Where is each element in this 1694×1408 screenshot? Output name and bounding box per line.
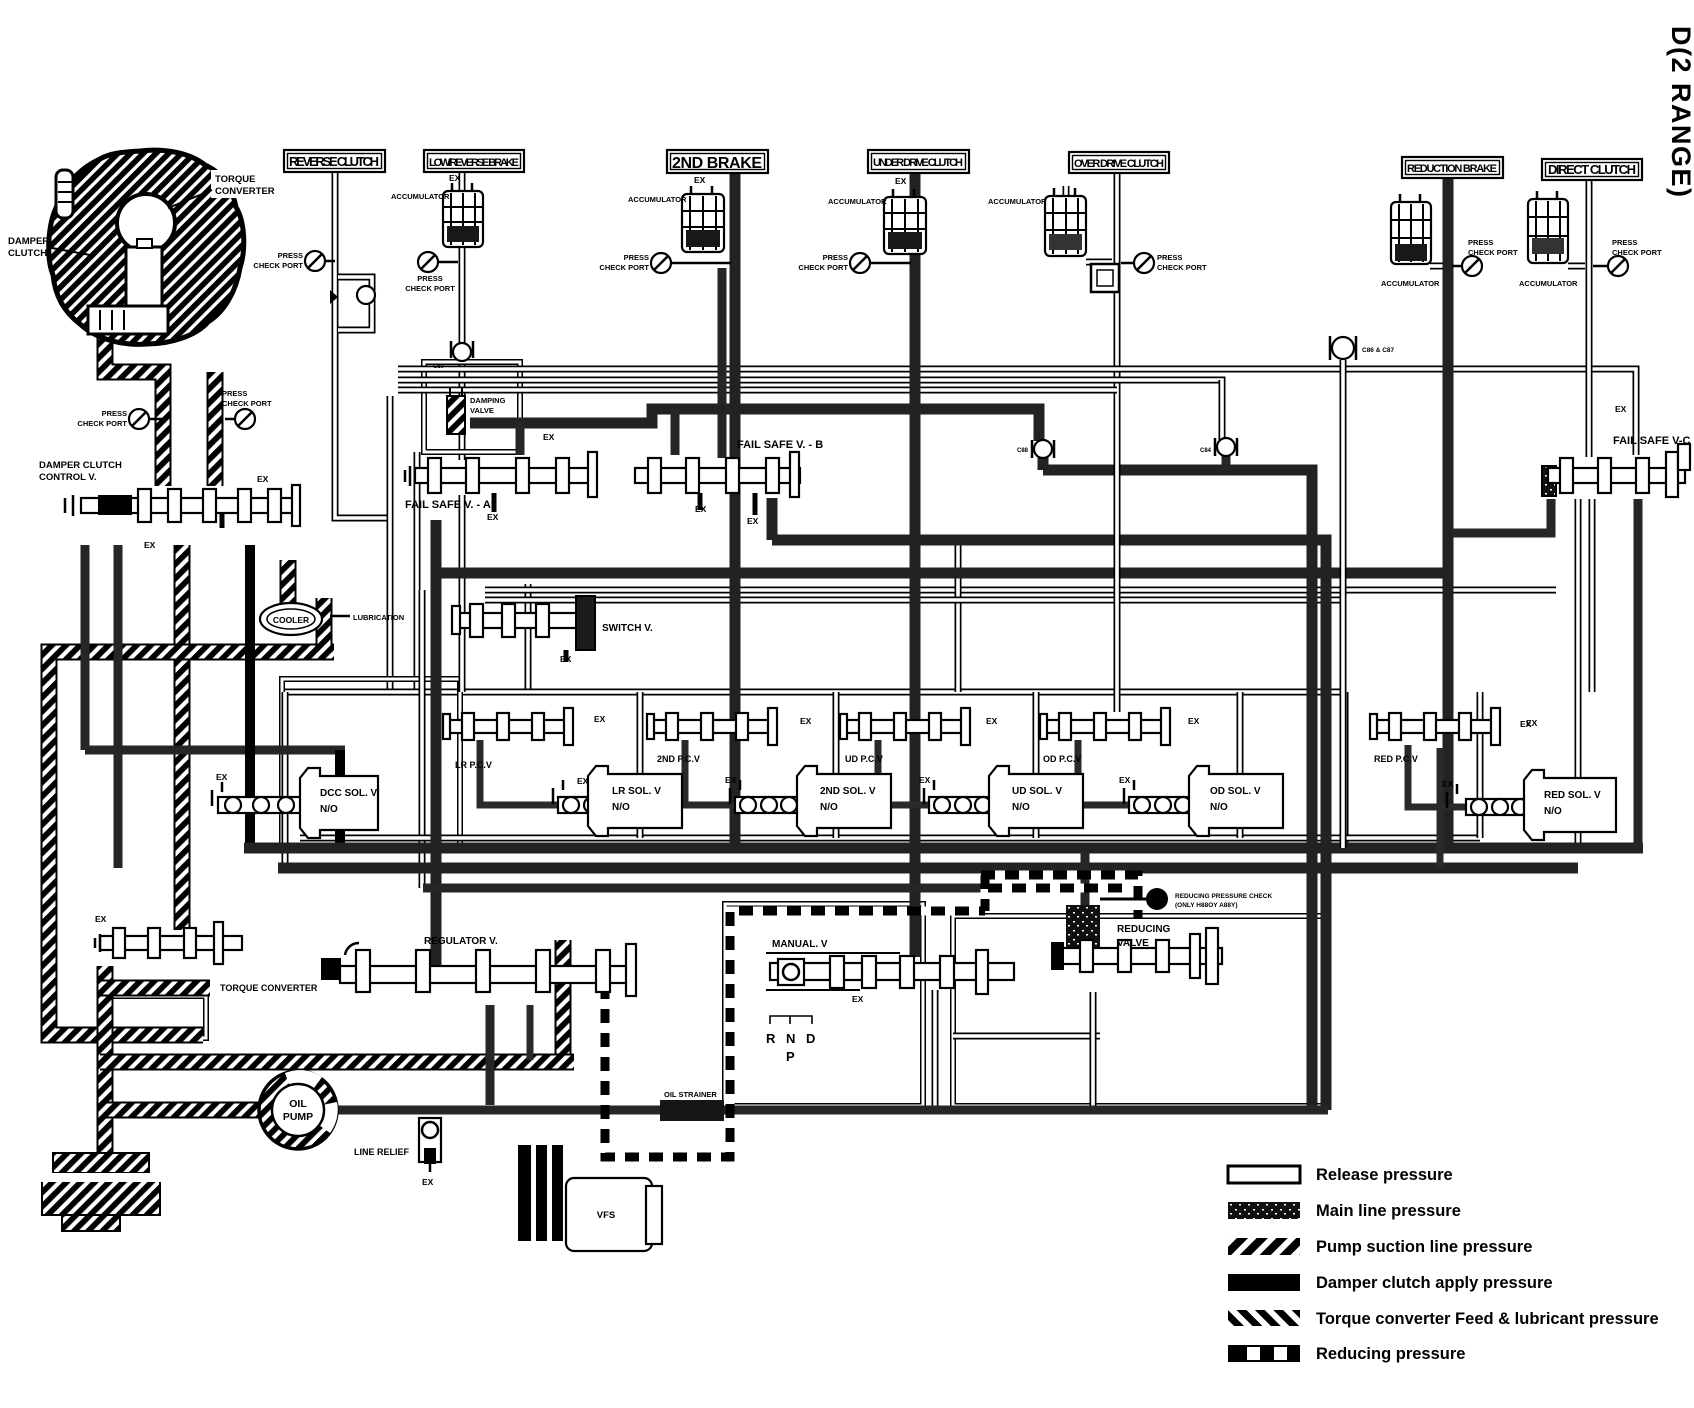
label MANUAL V <box>772 939 828 950</box>
label C84 <box>1200 448 1212 454</box>
svg-text:REGULATOR V.: REGULATOR V. <box>424 936 498 947</box>
svg-text:REVERSE CLUTCH: REVERSE CLUTCH <box>289 154 379 169</box>
box DIRECT CLUTCH <box>1542 159 1642 180</box>
label C86 C87 <box>1362 347 1395 354</box>
svg-text:PRESS: PRESS <box>278 251 303 260</box>
solenoid DCC <box>212 768 378 838</box>
svg-text:CONVERTER: CONVERTER <box>215 186 275 197</box>
WIRES-MAIN <box>85 172 1643 1110</box>
check ball C88 <box>1032 440 1054 458</box>
label FAIL SAFE V-A <box>405 499 491 511</box>
wire LR pcv-sol link <box>480 740 560 805</box>
wire reducing pressure line 1 <box>605 911 985 1157</box>
svg-text:REDUCTION BRAKE: REDUCTION BRAKE <box>1407 163 1497 175</box>
wire failsafe C link <box>1452 499 1551 533</box>
wire switch valve drop <box>525 584 532 695</box>
solenoid 2ND <box>730 766 891 836</box>
legend pump suction swatch <box>1228 1238 1300 1255</box>
svg-text:EX: EX <box>543 432 555 442</box>
wire DIR accumulator link <box>1568 263 1585 270</box>
svg-text:PRESS: PRESS <box>823 253 848 262</box>
accumulator 2ND <box>682 186 724 252</box>
svg-text:FAIL SAFE V-C: FAIL SAFE V-C <box>1613 435 1690 447</box>
svg-text:EX: EX <box>257 474 269 484</box>
wire direct line overpass <box>1586 250 1593 457</box>
label press check dcc2 <box>222 389 272 408</box>
svg-text:Release pressure: Release pressure <box>1316 1166 1453 1184</box>
svg-text:2ND SOL. V: 2ND SOL. V <box>820 786 876 797</box>
svg-text:SWITCH V.: SWITCH V. <box>602 623 653 634</box>
wire pump output line <box>337 1106 1328 1115</box>
svg-text:DAMPER CLUTCH: DAMPER CLUTCH <box>39 460 122 471</box>
label FAIL SAFE V-B <box>737 439 823 451</box>
wire 2ND pcv-sol link <box>685 740 741 805</box>
label TORQUE CONVERTER <box>168 170 283 208</box>
wire mid box left border <box>419 590 426 888</box>
svg-text:(ONLY H88OY A88Y): (ONLY H88OY A88Y) <box>1175 902 1238 909</box>
wire bottom bus A <box>244 843 1643 854</box>
check ball C59 <box>451 341 473 361</box>
label LR PCV <box>455 760 492 770</box>
wire second mid thin bus <box>485 597 1345 604</box>
wire pcv partition 5 <box>1237 692 1244 838</box>
press check port direct <box>1593 256 1628 276</box>
svg-text:C88: C88 <box>1017 448 1029 454</box>
wire low-reverse release line <box>459 171 466 460</box>
svg-text:EX: EX <box>422 1177 434 1187</box>
wire damper clutch apply line <box>245 545 255 848</box>
svg-text:CHECK PORT: CHECK PORT <box>1468 248 1518 257</box>
wire regulator drain 2 <box>527 1005 534 1060</box>
label RNDP <box>766 1016 815 1064</box>
svg-text:EX: EX <box>986 716 998 726</box>
wire lower hatch pipe a <box>100 980 210 997</box>
press check port dcc left <box>129 409 162 429</box>
wire od drop to pcv <box>1114 692 1121 712</box>
damping valve <box>447 388 465 434</box>
svg-text:FAIL SAFE V. - A: FAIL SAFE V. - A <box>405 499 491 511</box>
oil pan strainer blocks <box>40 1153 162 1231</box>
svg-text:CHECK PORT: CHECK PORT <box>77 419 127 428</box>
label DAMPING VALVE <box>470 396 506 415</box>
label press check dir <box>1612 238 1662 257</box>
wire C84 drop overpass <box>1219 380 1226 438</box>
wire damping valve frame <box>424 362 520 452</box>
wire failsafe A drop <box>459 495 466 692</box>
box 2ND BRAKE <box>667 150 768 173</box>
svg-text:REDUCING PRESSURE CHECK: REDUCING PRESSURE CHECK <box>1175 893 1272 900</box>
svg-text:N/O: N/O <box>612 802 630 813</box>
svg-text:CHECK PORT: CHECK PORT <box>253 261 303 270</box>
svg-text:FAIL SAFE V. - B: FAIL SAFE V. - B <box>737 439 823 451</box>
svg-text:EX: EX <box>694 175 706 185</box>
wire underdrive apply line <box>910 172 921 957</box>
lubrication leader <box>330 615 350 618</box>
wire reduction brake line <box>1443 177 1454 848</box>
accumulator RED <box>1391 194 1431 264</box>
svg-text:TORQUE CONVERTER: TORQUE CONVERTER <box>220 983 318 993</box>
wire mid thin bus <box>485 587 1556 594</box>
svg-text:EX: EX <box>1526 718 1538 728</box>
svg-text:C59: C59 <box>433 364 445 370</box>
wire top bus 1 <box>398 369 1636 455</box>
wire right verticals below failsafe C <box>1575 499 1582 850</box>
block reducing valve inlet <box>1066 905 1100 957</box>
svg-text:EX: EX <box>800 716 812 726</box>
label ACCUMULATOR OD <box>988 197 1047 206</box>
press check port dcc right <box>225 409 255 429</box>
wire torque converter right pipe <box>207 372 224 486</box>
wire reducing pressure link <box>981 875 990 911</box>
svg-text:2ND P.C.V: 2ND P.C.V <box>657 754 700 764</box>
wire tc valve drain pipe <box>555 940 572 1062</box>
valve fail safe A <box>405 452 597 497</box>
wire pcv partition 3 <box>833 692 840 838</box>
solenoid LR <box>553 766 682 836</box>
valve switch <box>452 596 595 650</box>
press check port od <box>1121 253 1154 273</box>
svg-text:EX: EX <box>487 512 499 522</box>
wire cooler return pipe <box>316 598 333 652</box>
svg-text:OIL STRAINER: OIL STRAINER <box>664 1090 717 1099</box>
svg-text:N/O: N/O <box>1210 802 1228 813</box>
svg-text:EX: EX <box>560 654 572 664</box>
wire failsafe B connector <box>671 409 680 455</box>
box REDUCTION BRAKE <box>1402 157 1503 178</box>
wire direct clutch release line <box>1586 179 1593 457</box>
label OD SOL <box>1210 786 1261 813</box>
svg-text:Reducing pressure: Reducing pressure <box>1316 1345 1465 1363</box>
svg-text:ACCUMULATOR: ACCUMULATOR <box>828 197 887 206</box>
label ACCUMULATOR 2ND <box>628 195 687 204</box>
accumulator DIR <box>1528 191 1568 263</box>
wire solenoid row top border <box>285 689 1345 696</box>
svg-text:Torque converter Feed & lubric: Torque converter Feed & lubricant pressu… <box>1316 1310 1659 1328</box>
legend texts <box>1316 1166 1659 1363</box>
wire torque converter valve box <box>105 996 206 1038</box>
svg-text:OIL: OIL <box>289 1098 307 1110</box>
wire damper apply to DCC solenoid <box>335 750 345 845</box>
svg-text:C86 & C87: C86 & C87 <box>1362 347 1395 354</box>
svg-text:VALVE: VALVE <box>470 406 494 415</box>
legend damper clutch swatch <box>1228 1274 1300 1291</box>
label reducing pressure check <box>1175 893 1272 909</box>
label DAMPER CLUTCH <box>8 236 90 259</box>
svg-text:EX: EX <box>1615 404 1627 414</box>
wire OD pcv-sol link <box>1078 740 1135 805</box>
valve manual <box>766 950 1014 994</box>
valve 2ND PCV <box>647 708 777 745</box>
svg-text:RED SOL. V: RED SOL. V <box>1544 790 1601 801</box>
wire OD accumulator link <box>1066 186 1112 262</box>
svg-text:OD SOL. V: OD SOL. V <box>1210 786 1261 797</box>
wire feed pipe down from DCC valve <box>174 545 191 930</box>
SOLENOID-ROW <box>212 708 1616 840</box>
wire pcv partition 4 <box>1033 692 1040 838</box>
valve RED PCV <box>1370 708 1500 745</box>
check ball C84 <box>1215 438 1237 456</box>
svg-text:LR P.C.V: LR P.C.V <box>455 760 492 770</box>
label press check lowrev <box>405 274 455 293</box>
svg-text:EX: EX <box>1442 779 1454 789</box>
svg-text:DAMPING: DAMPING <box>470 396 506 405</box>
oil pump <box>259 1070 338 1149</box>
wire left gray vertical 2 <box>114 545 123 868</box>
label TORQUE CONVERTER valve <box>220 983 318 993</box>
svg-text:PUMP: PUMP <box>283 1111 313 1123</box>
svg-text:ACCUMULATOR: ACCUMULATOR <box>628 195 687 204</box>
svg-text:D: D <box>806 1031 815 1046</box>
legend main line swatch <box>1228 1202 1300 1219</box>
svg-text:PRESS: PRESS <box>624 253 649 262</box>
label OIL STRAINER <box>664 1090 717 1099</box>
box LOW/REVERSE BRAKE <box>424 150 524 172</box>
wire left pair vertical <box>387 396 394 695</box>
svg-text:CHECK PORT: CHECK PORT <box>405 284 455 293</box>
svg-text:PRESS: PRESS <box>1612 238 1637 247</box>
wire bottom bus C <box>423 884 988 893</box>
svg-text:EX: EX <box>695 504 707 514</box>
label 2ND SOL <box>820 786 876 813</box>
wire cooler feed pipe <box>280 560 297 606</box>
svg-text:Damper clutch apply pressure: Damper clutch apply pressure <box>1316 1274 1553 1292</box>
press check port red <box>1452 256 1482 276</box>
svg-text:2ND BRAKE: 2ND BRAKE <box>672 155 762 172</box>
press check port 2nd <box>651 253 731 273</box>
svg-text:EX: EX <box>449 173 461 183</box>
wire 2nd brake apply line <box>730 172 741 848</box>
wire manual valve box <box>725 904 923 1106</box>
check ball C86-C87 <box>1330 336 1356 360</box>
wire failsafe A connector <box>516 423 525 455</box>
svg-text:PRESS: PRESS <box>222 389 247 398</box>
wire solenoid box left border <box>282 692 289 868</box>
label ACCUMULATOR RED <box>1381 279 1440 288</box>
svg-text:PRESS: PRESS <box>417 274 442 283</box>
legend release swatch <box>1228 1166 1300 1183</box>
svg-text:Pump suction line pressure: Pump suction line pressure <box>1316 1238 1532 1256</box>
svg-text:DIRECT CLUTCH: DIRECT CLUTCH <box>1548 162 1636 177</box>
label REGULATOR V <box>424 936 498 947</box>
svg-text:EX: EX <box>594 714 606 724</box>
wire bus D to right vertical <box>1043 456 1312 1110</box>
svg-text:EX: EX <box>725 775 737 785</box>
label press check 2nd <box>599 253 649 272</box>
valve fail safe C <box>1542 444 1690 497</box>
svg-text:P: P <box>786 1049 795 1064</box>
svg-text:DAMPER: DAMPER <box>8 236 49 247</box>
wire upper dark bus D <box>470 409 1039 441</box>
wire reducing bus segment <box>988 884 1125 893</box>
oil strainer block <box>660 1100 724 1121</box>
svg-text:PRESS: PRESS <box>1157 253 1182 262</box>
wire reverse clutch release line <box>335 171 390 695</box>
wire regulator drain <box>486 1005 495 1105</box>
wire right mottled vertical <box>1634 499 1643 848</box>
wire pcv partition 6 <box>1477 692 1484 838</box>
svg-text:LR SOL. V: LR SOL. V <box>612 786 661 797</box>
svg-text:Main line pressure: Main line pressure <box>1316 1202 1461 1220</box>
svg-text:EX: EX <box>1188 716 1200 726</box>
check ball reverse bypass <box>330 286 375 304</box>
label LINE RELIEF <box>354 1147 410 1157</box>
svg-text:UD SOL. V: UD SOL. V <box>1012 786 1062 797</box>
wire mid dark bus at 540 <box>772 498 1326 1110</box>
wire damping frame drop <box>414 452 421 695</box>
wire pcv partition 2 <box>637 692 644 838</box>
svg-text:C84: C84 <box>1200 448 1212 454</box>
svg-text:N/O: N/O <box>820 802 838 813</box>
svg-text:RED P.C.V: RED P.C.V <box>1374 754 1418 764</box>
wire RED pcv feed <box>1437 748 1444 868</box>
svg-text:OD P.C.V: OD P.C.V <box>1043 754 1081 764</box>
box REVERSE CLUTCH <box>284 150 385 172</box>
label LUBRICATION <box>353 613 404 622</box>
legend torque converter swatch <box>1228 1310 1300 1326</box>
box UNDER DRIVE CLUTCH <box>868 150 969 173</box>
label press check reverse <box>253 251 303 270</box>
svg-text:EX: EX <box>1119 775 1131 785</box>
wire top bus 3 <box>398 387 1117 394</box>
svg-text:EX: EX <box>95 914 107 924</box>
wire torque converter left outlet pipe <box>105 305 163 486</box>
svg-text:ACCUMULATOR: ACCUMULATOR <box>391 192 450 201</box>
svg-text:VALVE: VALVE <box>1117 938 1149 949</box>
valve OD PCV <box>1040 708 1170 745</box>
svg-text:ACCUMULATOR: ACCUMULATOR <box>1519 279 1578 288</box>
wire outer suction pipe <box>49 652 334 1035</box>
wire pcv partition 1 <box>435 692 442 838</box>
label press check dcc1 <box>77 409 127 428</box>
svg-text:CLUTCH: CLUTCH <box>8 248 47 259</box>
label EX marks <box>95 173 1627 1187</box>
fitting OD line <box>1091 264 1119 292</box>
svg-text:CHECK PORT: CHECK PORT <box>599 263 649 272</box>
label D(2 RANGE) <box>1666 26 1694 199</box>
label RED SOL <box>1544 790 1601 817</box>
label 2ND PCV <box>657 754 700 764</box>
label SWITCH V <box>602 623 653 634</box>
svg-text:EX: EX <box>216 772 228 782</box>
WIRES-DASH <box>605 875 1138 1157</box>
wire RED accumulator link <box>1430 263 1444 270</box>
wire top bus 2 <box>398 380 1222 440</box>
valve UD PCV <box>840 708 970 745</box>
svg-text:EX: EX <box>577 776 589 786</box>
svg-text:R: R <box>766 1031 776 1046</box>
label UD SOL <box>1012 786 1062 813</box>
valve line relief <box>419 1118 441 1172</box>
wire reverse bypass loop <box>338 277 372 330</box>
wire overdrive line overpass <box>1114 396 1121 692</box>
wire C84 drop <box>1222 452 1231 470</box>
svg-text:MANUAL. V: MANUAL. V <box>772 939 828 950</box>
valve regulator <box>321 943 636 996</box>
accumulator LR <box>443 183 483 247</box>
label ACCUMULATOR LR <box>391 192 450 201</box>
svg-text:UNDER DRIVE CLUTCH: UNDER DRIVE CLUTCH <box>873 157 963 169</box>
label FAIL SAFE V-C <box>1613 435 1690 447</box>
svg-text:N/O: N/O <box>1012 802 1030 813</box>
press check port reverse <box>305 251 335 271</box>
legend reducing swatch <box>1228 1345 1300 1362</box>
svg-text:EX: EX <box>852 994 864 1004</box>
label LR SOL <box>612 786 661 813</box>
wire manual box inner drop <box>932 990 939 1106</box>
svg-text:ACCUMULATOR: ACCUMULATOR <box>988 197 1047 206</box>
svg-text:LUBRICATION: LUBRICATION <box>353 613 404 622</box>
wire lower hatch pipe c <box>100 1102 258 1119</box>
svg-text:REDUCING: REDUCING <box>1117 924 1171 935</box>
svg-text:OVER DRIVE CLUTCH: OVER DRIVE CLUTCH <box>1074 158 1164 170</box>
svg-text:LINE RELIEF: LINE RELIEF <box>354 1147 410 1157</box>
press check port ud <box>850 253 911 273</box>
svg-text:CHECK PORT: CHECK PORT <box>1157 263 1207 272</box>
box OVER DRIVE CLUTCH <box>1069 152 1169 173</box>
wire lower hatch pipe b <box>100 1054 574 1071</box>
svg-text:CONTROL V.: CONTROL V. <box>39 472 97 483</box>
svg-text:TORQUE: TORQUE <box>215 174 255 185</box>
wire main bus E <box>432 568 1449 579</box>
label press check red <box>1468 238 1518 257</box>
svg-text:EX: EX <box>144 540 156 550</box>
wire reducing valve feed <box>1081 850 1090 930</box>
label DAMPER CLUTCH CONTROL V <box>39 460 122 483</box>
label DCC SOL <box>320 788 378 815</box>
label RED PCV <box>1374 754 1418 764</box>
svg-text:EX: EX <box>747 516 759 526</box>
valve torque converter <box>95 922 242 964</box>
svg-text:EX: EX <box>919 775 931 785</box>
wire pan suction pipe <box>97 966 114 1166</box>
valve reducing <box>1051 888 1222 984</box>
wire C86 line overpass <box>1340 362 1347 848</box>
wire bottom bus B <box>278 863 1578 874</box>
wire UD box feed <box>955 545 962 692</box>
wire left gray vertical 1 <box>85 545 345 750</box>
solenoid UD <box>924 766 1083 836</box>
svg-text:ACCUMULATOR: ACCUMULATOR <box>1381 279 1440 288</box>
wire C86-C87 line <box>1340 360 1347 850</box>
svg-text:EX: EX <box>895 176 907 186</box>
wire DCC solenoid box <box>282 679 460 849</box>
label C59 <box>433 364 445 370</box>
svg-text:PRESS: PRESS <box>1468 238 1493 247</box>
label press check od <box>1157 253 1207 272</box>
label UD PCV <box>845 754 883 764</box>
torque converter <box>49 150 244 344</box>
wire overdrive release line <box>1114 172 1121 692</box>
svg-text:N/O: N/O <box>1544 806 1562 817</box>
wire lower thin bus pair <box>300 835 1480 842</box>
svg-text:COOLER: COOLER <box>273 615 309 625</box>
wire solenoid box divider 1345 <box>1342 692 1349 845</box>
svg-text:VFS: VFS <box>597 1210 615 1221</box>
svg-text:CHECK PORT: CHECK PORT <box>798 263 848 272</box>
svg-text:N: N <box>786 1031 795 1046</box>
vfs solenoid <box>518 1145 662 1251</box>
wire UD pcv-sol link <box>878 740 935 805</box>
WIRES-HATCH <box>49 305 574 1166</box>
WIRES-RELEASE <box>105 171 1636 1106</box>
LEGEND <box>1228 1166 1659 1363</box>
wire reducing pressure line 2 <box>981 875 1138 918</box>
accumulator UD <box>884 189 926 254</box>
wire RED pcv-sol link <box>1408 745 1472 807</box>
valve damper clutch control <box>65 485 300 526</box>
svg-text:UD P.C.V: UD P.C.V <box>845 754 883 764</box>
svg-text:PRESS: PRESS <box>102 409 127 418</box>
